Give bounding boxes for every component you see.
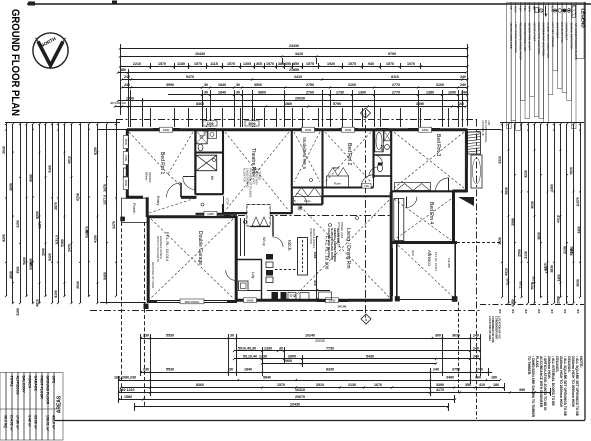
study diagonals: [294, 132, 320, 182]
svg-text:230: 230: [143, 368, 149, 372]
svg-text:36.3 SQ: 36.3 SQ: [4, 415, 8, 428]
dim 8360/1580/5790/3690: [115, 106, 466, 108]
wall right bed4: [452, 191, 455, 243]
bed1 diagonals: [129, 132, 168, 174]
svg-text:3100: 3100: [436, 83, 444, 87]
bath-wc inner walls: [374, 154, 392, 156]
svg-text:21850: 21850: [289, 68, 299, 72]
svg-text:30: 30: [279, 347, 283, 351]
svg-text:8110: 8110: [391, 75, 399, 79]
bed2 door arc: [361, 175, 374, 188]
svg-text:POWER POINT: POWER POINT: [309, 228, 311, 245]
wall ens-wir divider: [195, 151, 223, 153]
wall porch right: [146, 197, 149, 217]
svg-text:1840: 1840: [244, 368, 252, 372]
svg-text:3460: 3460: [557, 274, 561, 281]
wc door arc: [369, 167, 378, 176]
areas row GARAGE: [30, 373, 36, 441]
svg-text:240: 240: [461, 91, 467, 95]
dim 1560/20030: [118, 100, 468, 102]
wall ens strip right / theatre left: [222, 129, 224, 195]
dashed extension bottom right: [476, 312, 478, 419]
window label boxes left wall: [123, 136, 128, 149]
svg-text:6736: 6736: [76, 193, 80, 201]
svg-text:Wr: Wr: [210, 176, 214, 181]
svg-text:1280: 1280: [207, 212, 214, 216]
svg-text:7730: 7730: [326, 347, 334, 351]
svg-text:5530: 5530: [166, 368, 174, 372]
svg-text:3470: 3470: [103, 184, 107, 192]
windows bed1 left wall: [126, 138, 129, 148]
alfresco right edge: [454, 244, 456, 300]
svg-text:4190: 4190: [16, 220, 20, 228]
svg-text:2560: 2560: [518, 249, 522, 257]
svg-text:240: 240: [563, 308, 567, 313]
bed4 window bottom: [409, 241, 435, 244]
svg-text:7130: 7130: [519, 281, 523, 288]
legend row LIFT OFF HINGES: [548, 3, 553, 95]
svg-text:5380: 5380: [61, 239, 65, 247]
wall bath right / bed3 left: [390, 129, 392, 192]
svg-text:HOT WATER SERVICE: HOT WATER SERVICE: [514, 23, 518, 53]
svg-text:1840: 1840: [218, 83, 226, 87]
svg-text:TEMP BRACING LOC.: TEMP BRACING LOC.: [523, 23, 527, 53]
left dim line 5400: [26, 124, 28, 296]
svg-text:3830: 3830: [550, 265, 554, 273]
svg-text:4350: 4350: [511, 299, 515, 307]
svg-text:AIR CONDITIONING DUCTS: AIR CONDITIONING DUCTS: [574, 23, 578, 61]
wall study right / bed2 left: [321, 129, 323, 205]
ldy tub: [239, 281, 249, 291]
svg-text:BALCONY: BALCONY: [22, 376, 26, 394]
svg-text:1670: 1670: [374, 383, 382, 387]
svg-text:3690: 3690: [416, 102, 424, 106]
section marker A bottom: [361, 314, 371, 324]
fridge space: [319, 292, 332, 300]
kitchen appliances: [272, 292, 279, 300]
vent label boxes above top wall: [203, 121, 217, 126]
garage internal door: [226, 270, 237, 281]
right dim line 3630: [534, 124, 536, 303]
svg-text:30: 30: [236, 91, 240, 95]
extension lines bottom: [140, 334, 142, 376]
wall theatre south: [223, 212, 292, 214]
svg-text:3160: 3160: [16, 308, 20, 316]
svg-text:DOWNLIGHT: DOWNLIGHT: [565, 23, 569, 41]
bed4 door arc: [406, 197, 417, 208]
section marker A top: [361, 108, 371, 118]
svg-text:Porch: Porch: [132, 203, 137, 213]
left dim line 2640: [45, 124, 47, 296]
page border bottom: [55, 420, 585, 422]
svg-text:2470: 2470: [112, 221, 116, 229]
svg-text:METER POST: METER POST: [532, 23, 536, 42]
left dim line 3470: [106, 124, 108, 303]
svg-text:6080: 6080: [29, 174, 33, 182]
svg-text:2410: 2410: [294, 75, 302, 79]
bath fixtures: [375, 131, 384, 152]
garage corner pier: [144, 304, 149, 310]
dim 3990/1840/3500/2750/2100/3100: [122, 87, 468, 89]
wip door arc: [273, 237, 283, 247]
svg-text:Robe: Robe: [334, 182, 341, 186]
svg-text:WAFFLE POD SLAB TO: WAFFLE POD SLAB TO: [156, 236, 159, 262]
hws unit: [471, 155, 482, 188]
svg-text:Living / Dining Rm: Living / Dining Rm: [345, 228, 351, 269]
svg-text:8150: 8150: [94, 147, 98, 155]
svg-text:4170: 4170: [436, 388, 444, 392]
legend row FLOOR JOIST DIRECTION: [544, 3, 549, 123]
svg-text:FIRST FLOOR: FIRST FLOOR: [40, 376, 44, 400]
section line A-A: [365, 110, 367, 318]
left dim line 8290: [39, 124, 41, 303]
svg-text:Robe: Robe: [304, 199, 311, 203]
svg-text:30: 30: [230, 334, 234, 338]
svg-text:ALFRESCO: ALFRESCO: [16, 376, 20, 396]
wall bed2 robe row: [292, 187, 374, 189]
wall bed1 right / ens strip left: [194, 129, 196, 195]
svg-text:2130: 2130: [348, 383, 356, 387]
svg-text:GARDEN TAP LOCATION: GARDEN TAP LOCATION: [542, 23, 546, 57]
svg-text:SEWER PIPE SHAFT: SEWER PIPE SHAFT: [528, 23, 532, 52]
left dimension block: [5, 122, 120, 124]
svg-text:360: 360: [475, 376, 481, 380]
svg-text:10240: 10240: [305, 334, 315, 338]
areas row TOTAL: [6, 373, 12, 441]
svg-text:214.02 m²: 214.02 m²: [10, 415, 14, 432]
svg-text:2100: 2100: [348, 83, 356, 87]
right dim line 4350: [554, 124, 556, 303]
svg-text:165,1080,230: 165,1080,230: [114, 376, 136, 380]
svg-text:1300: 1300: [358, 91, 366, 95]
left dim line 4190: [20, 124, 22, 303]
entry diagonals: [149, 198, 196, 213]
dim 2900 bottom: [262, 363, 436, 365]
svg-text:1209: 1209: [206, 122, 213, 126]
svg-text:22430: 22430: [290, 403, 300, 407]
study robe: [294, 197, 322, 205]
svg-text:1500: 1500: [345, 128, 352, 132]
theatre diagonals: [225, 132, 289, 211]
ens fixtures: [196, 131, 207, 144]
svg-text:4310: 4310: [505, 268, 509, 276]
svg-text:240 240: 240 240: [338, 306, 347, 309]
page border right: [584, 2, 586, 420]
svg-text:3400: 3400: [577, 226, 581, 233]
svg-text:5400: 5400: [23, 257, 27, 265]
wall bed2 right / bath left: [372, 129, 374, 178]
kitchen walls wip: [235, 216, 237, 260]
wall garage left: [148, 216, 150, 302]
svg-text:C99: C99: [364, 185, 369, 188]
svg-text:2586: 2586: [557, 296, 561, 304]
svg-text:AREAS: AREAS: [57, 395, 63, 413]
svg-text:3160: 3160: [48, 165, 52, 173]
svg-text:230: 230: [143, 334, 149, 338]
svg-text:DOWN PIPE LOCATION: DOWN PIPE LOCATION: [537, 23, 541, 55]
living internal dim line: [316, 236, 318, 300]
svg-text:Tub 36B: Tub 36B: [447, 258, 451, 268]
areas row SITE: [48, 373, 54, 441]
left dim line 4090: [12, 124, 14, 303]
svg-text:3830: 3830: [498, 237, 502, 245]
svg-text:240: 240: [473, 355, 479, 359]
wall theatre right / study left: [291, 129, 293, 214]
svg-text:AC TRADE: AC TRADE: [258, 168, 261, 180]
smoke detector hall: [298, 206, 302, 210]
ldy walls: [261, 260, 263, 302]
svg-text:2640: 2640: [9, 271, 13, 279]
svg-text:1151.0: 1151.0: [55, 235, 59, 245]
svg-text:5530: 5530: [166, 334, 174, 338]
right dim line 3830: [540, 124, 542, 297]
svg-text:4290: 4290: [545, 266, 549, 273]
svg-text:240: 240: [473, 334, 479, 338]
svg-text:1180: 1180: [177, 62, 185, 66]
svg-text:Ens.: Ens.: [203, 130, 207, 137]
svg-text:VP: VP: [509, 6, 513, 10]
svg-text:GARAGE: GARAGE: [34, 376, 38, 392]
svg-text:PORCH: PORCH: [28, 376, 32, 389]
svg-text:1920: 1920: [327, 62, 335, 66]
svg-text:2460: 2460: [570, 246, 574, 253]
svg-text:1580: 1580: [124, 395, 132, 399]
svg-text:1070: 1070: [407, 62, 415, 66]
svg-text:650: 650: [285, 62, 291, 66]
svg-text:TO TIMBER.: TO TIMBER.: [527, 356, 531, 375]
right dim line 2560: [521, 124, 523, 297]
svg-text:Alfresco: Alfresco: [427, 250, 432, 266]
svg-text:Bed Rm 3: Bed Rm 3: [435, 134, 441, 156]
svg-text:240: 240: [460, 75, 466, 79]
areas row ALFRESCO: [12, 373, 18, 441]
svg-text:300: 300: [435, 334, 441, 338]
svg-text:3900: 3900: [313, 251, 317, 258]
svg-text:FOR AC VENT.: FOR AC VENT.: [252, 168, 255, 185]
svg-text:3x10: 3x10: [411, 250, 415, 257]
svg-text:240: 240: [124, 75, 130, 79]
dim 22430 bottom: [135, 406, 448, 408]
svg-text:30: 30: [204, 91, 208, 95]
svg-text:3830: 3830: [537, 232, 541, 240]
left dim line 2870: [58, 124, 60, 303]
theatre door csd: [223, 196, 225, 211]
window bed3 top: [408, 128, 440, 131]
svg-text:2900: 2900: [284, 359, 292, 363]
svg-text:17.88 m²: 17.88 m²: [16, 415, 20, 430]
svg-text:180: 180: [491, 376, 497, 380]
svg-text:QUOTED WITH: QUOTED WITH: [255, 168, 258, 185]
legend row AIR CONDITIONING DUCTS: [571, 3, 576, 129]
svg-text:7670: 7670: [570, 167, 574, 175]
legend row EXHAUST FAN: [557, 3, 562, 89]
svg-text:240: 240: [460, 83, 466, 87]
svg-text:1685: 1685: [29, 258, 33, 265]
svg-text:3.48 m²: 3.48 m²: [28, 415, 32, 428]
svg-text:380: 380: [278, 62, 284, 66]
legend row GAS POINT: [553, 3, 558, 71]
wall jog right: [453, 190, 468, 193]
kitchen bench back: [267, 290, 330, 292]
svg-text:SMOKE DETECTOR: SMOKE DETECTOR: [569, 23, 573, 50]
svg-text:0912: 0912: [124, 154, 128, 161]
hall dashed bulkhead: [247, 205, 270, 227]
svg-text:1570: 1570: [386, 62, 394, 66]
extension wall to blocks: [98, 129, 126, 131]
right dim line 3830: [508, 124, 510, 303]
dim 1580/20670 bottom: [119, 399, 455, 401]
svg-text:2870: 2870: [54, 202, 58, 210]
svg-text:MP: MP: [532, 6, 536, 10]
svg-text:1/720: 1/720: [226, 198, 230, 205]
svg-text:SPS: SPS: [528, 6, 532, 12]
wall garage top: [147, 215, 237, 218]
svg-text:3630: 3630: [576, 279, 580, 287]
linen stack column: [266, 254, 273, 260]
svg-text:FLOOR JOIST DIRECTION: FLOOR JOIST DIRECTION: [546, 23, 550, 59]
svg-text:3390: 3390: [436, 383, 444, 387]
svg-text:2770: 2770: [392, 83, 400, 87]
wall bottom kitchen-living: [235, 299, 392, 302]
dim 165/1080/5840 bottom: [119, 380, 500, 382]
svg-text:850: 850: [293, 62, 299, 66]
svg-text:4090: 4090: [9, 183, 13, 191]
svg-text:740: 740: [477, 368, 483, 372]
svg-text:1500: 1500: [305, 128, 312, 132]
svg-text:COLUMN WITH TROUGH: COLUMN WITH TROUGH: [327, 228, 330, 258]
eaves outline dashed: [116, 119, 477, 121]
svg-text:GROUND FLOOR PLAN: GROUND FLOOR PLAN: [9, 9, 21, 116]
svg-text:20670: 20670: [295, 395, 305, 399]
svg-text:240: 240: [524, 308, 528, 313]
svg-text:7130: 7130: [506, 278, 510, 285]
wall exterior top: [127, 128, 468, 131]
window bed3 right wall: [465, 143, 468, 168]
left dim line 5420: [88, 124, 90, 296]
bed4 diagonals: [394, 199, 451, 240]
svg-text:Bed Rm 2: Bed Rm 2: [346, 143, 352, 165]
left dim line 3160: [52, 124, 54, 303]
svg-text:9470: 9470: [186, 75, 194, 79]
svg-text:SECTIONAL O/H DOOR: SECTIONAL O/H DOOR: [151, 262, 154, 288]
svg-text:350: 350: [519, 388, 525, 392]
svg-text:2770: 2770: [392, 91, 400, 95]
page border top: [27, 3, 591, 5]
svg-text:0909: 0909: [124, 179, 128, 186]
dashed extension lines bottom left: [121, 222, 123, 400]
porch slab: [122, 198, 148, 222]
svg-text:Bed Rm 1: Bed Rm 1: [159, 152, 165, 174]
svg-text:3562: 3562: [16, 266, 20, 273]
kitchen island: [298, 238, 308, 276]
right dim line 2130: [566, 124, 568, 303]
svg-text:4610: 4610: [36, 299, 40, 307]
svg-text:4350: 4350: [550, 184, 554, 192]
kitchen bench dashes: [275, 269, 297, 271]
svg-text:1570: 1570: [194, 62, 202, 66]
svg-text:TIMBER LOOK: TIMBER LOOK: [340, 222, 343, 239]
svg-text:4800 PANEL: 4800 PANEL: [185, 300, 200, 304]
svg-text:30: 30: [229, 368, 233, 372]
svg-text:SITE: SITE: [52, 376, 56, 384]
meterbox: [124, 168, 128, 177]
svg-text:940: 940: [368, 62, 374, 66]
svg-text:5420: 5420: [48, 253, 52, 261]
wall study south: [292, 204, 323, 206]
right dim line 4310: [560, 124, 562, 297]
svg-text:5000: 5000: [248, 122, 255, 126]
svg-text:GAS POINT: GAS POINT: [555, 23, 559, 39]
svg-text:S/DOWN: S/DOWN: [148, 172, 152, 183]
svg-text:240: 240: [498, 308, 502, 313]
window kitchen bottom: [317, 299, 348, 302]
svg-text:2470: 2470: [68, 244, 72, 252]
wall exterior left: [126, 129, 129, 198]
svg-text:TELESCOPIC STEEL PROP: TELESCOPIC STEEL PROP: [518, 23, 522, 60]
svg-text:3310: 3310: [498, 156, 502, 164]
wall bed4 bottom / alfresco top: [391, 241, 457, 244]
dim 3900 bottom: [234, 358, 480, 360]
svg-text:CSD: CSD: [551, 6, 555, 13]
dim 9470/2410/8110: [122, 79, 468, 81]
svg-text:1730: 1730: [336, 91, 344, 95]
svg-text:2750: 2750: [306, 83, 314, 87]
svg-text:8290: 8290: [36, 211, 40, 219]
window ens top: [208, 128, 217, 131]
svg-text:3830: 3830: [505, 187, 509, 195]
svg-text:1570: 1570: [266, 62, 274, 66]
svg-text:3900: 3900: [288, 355, 296, 359]
alfresco left wall: [396, 244, 398, 300]
svg-text:8360: 8360: [196, 383, 204, 387]
bed3 diagonals: [394, 132, 464, 188]
svg-text:0906: 0906: [247, 299, 254, 303]
dim 5530/10240/3630 bottom: [141, 338, 480, 340]
left dim line 5380: [64, 124, 66, 296]
svg-text:240: 240: [550, 308, 554, 313]
svg-text:365: 365: [256, 62, 262, 66]
svg-text:UNIT: UNIT: [487, 120, 490, 126]
svg-text:3480: 3480: [446, 376, 454, 380]
svg-text:5790: 5790: [333, 102, 341, 106]
svg-text:240: 240: [576, 308, 580, 313]
dim 480/21850: [118, 72, 466, 74]
areas row 36.3 SQ: [0, 373, 6, 441]
svg-text:240: 240: [124, 83, 130, 87]
svg-text:20030: 20030: [315, 339, 325, 343]
ldy bench: [248, 290, 262, 292]
right dim line 7670: [573, 124, 575, 303]
wall hall north (under ens strip): [195, 193, 223, 195]
right dim line 3310: [502, 124, 504, 297]
svg-text:1380: 1380: [426, 91, 434, 95]
svg-text:Kitch.: Kitch.: [287, 240, 292, 252]
svg-text:2470: 2470: [38, 221, 42, 228]
svg-text:10430: 10430: [195, 52, 205, 56]
svg-text:PROVIDE DOUBLE: PROVIDE DOUBLE: [312, 228, 314, 249]
bath door arc: [374, 155, 383, 164]
svg-text:ALLOW FOR: ALLOW FOR: [243, 168, 246, 182]
legend row VENTILATION PIPE: [507, 3, 512, 129]
alfresco stacker door: [391, 248, 393, 296]
legend row LEGEND: [576, 3, 584, 59]
wall garage bottom / door: [147, 300, 157, 303]
right dim line 2586: [514, 124, 516, 303]
section dash line hall: [224, 215, 391, 217]
legend row TELESCOPIC STEEL PROP: [516, 3, 521, 131]
svg-text:2640: 2640: [42, 248, 46, 256]
svg-text:Ldy: Ldy: [251, 272, 256, 278]
